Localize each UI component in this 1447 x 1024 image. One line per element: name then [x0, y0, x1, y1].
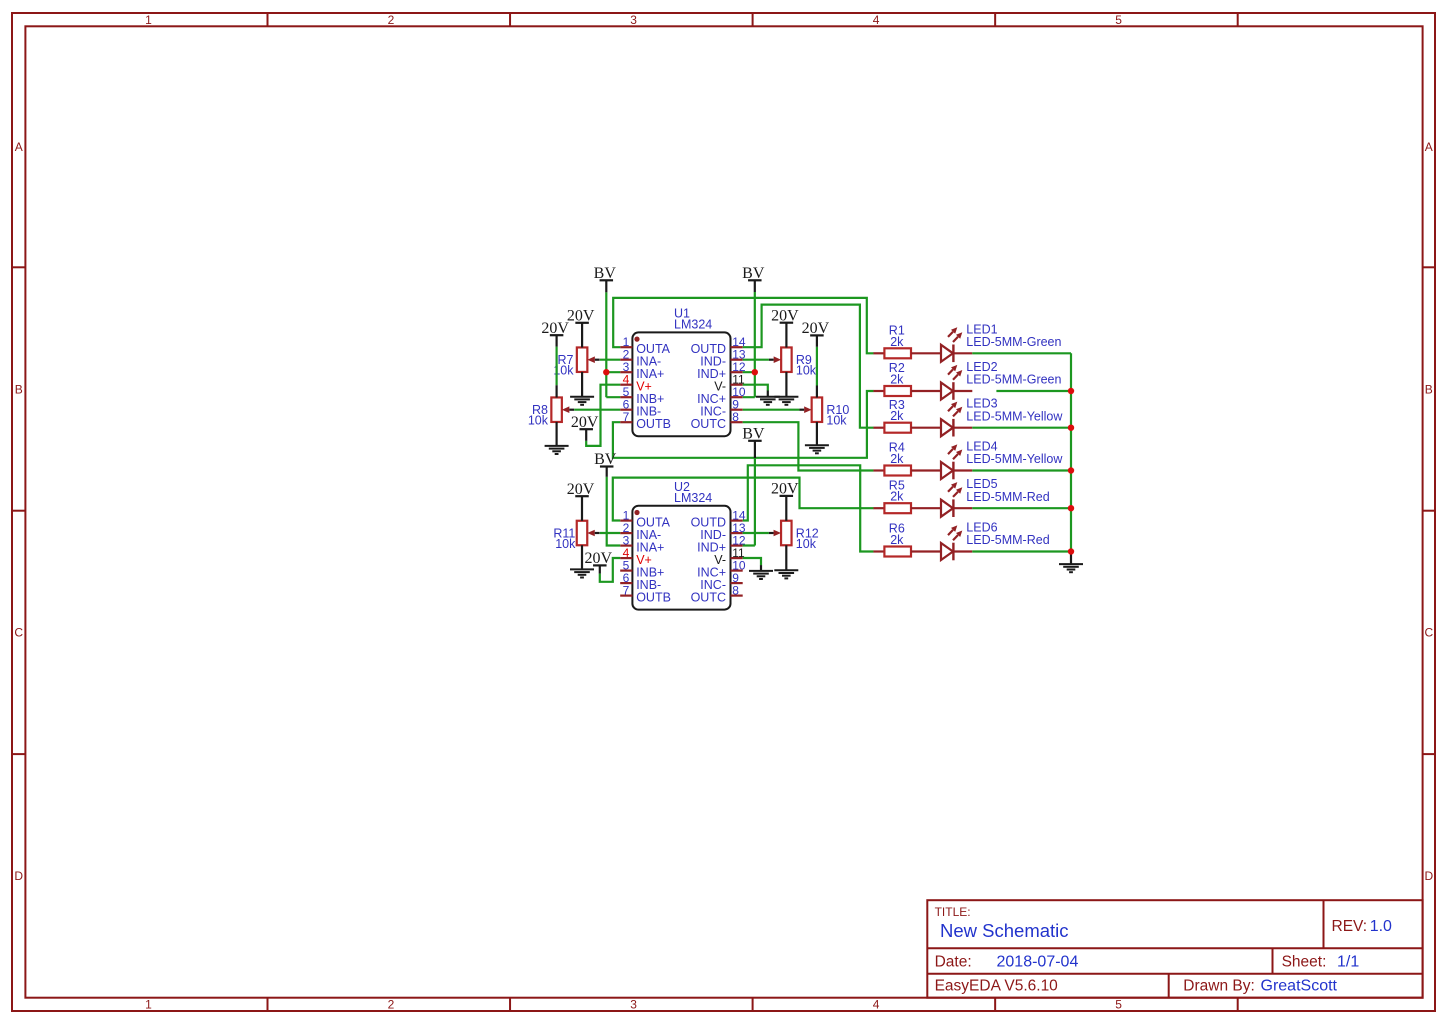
svg-text:TITLE:: TITLE:	[935, 905, 971, 919]
wire U1.OUTB to R2	[613, 391, 874, 458]
wire 20V to R10 top	[816, 347, 818, 386]
wire U1.OUTA to R1	[613, 298, 873, 353]
svg-text:8: 8	[732, 583, 739, 597]
wire BV flag stem (top left)	[605, 280, 607, 292]
U1 pin stubs	[620, 347, 743, 422]
svg-text:2k: 2k	[890, 452, 904, 466]
LED1	[941, 327, 972, 362]
resistor R1 2k	[873, 348, 941, 358]
svg-text:4: 4	[873, 998, 880, 1012]
LED2	[941, 365, 972, 400]
U1 pin numbers	[623, 335, 746, 424]
svg-text:OUTC: OUTC	[691, 417, 726, 431]
potentiometer R12 10k	[769, 521, 792, 546]
wire R12 bottom to ground	[785, 545, 787, 570]
potentiometer R10 10k	[799, 397, 822, 422]
power flag 20V	[567, 481, 595, 498]
power flag BV	[594, 265, 617, 282]
svg-text:10k: 10k	[796, 364, 817, 378]
resistor R5 2k	[873, 503, 941, 513]
wire R8 bottom to ground	[555, 422, 557, 446]
svg-text:B: B	[15, 382, 23, 396]
wire 20V stem to R11 top	[581, 496, 583, 521]
wire U1.V+ to 20V	[586, 385, 620, 446]
svg-text:LED-5MM-Yellow: LED-5MM-Yellow	[966, 409, 1063, 423]
junction LED2 bus	[1068, 388, 1074, 394]
svg-text:A: A	[1425, 140, 1433, 154]
junction LED4 bus	[1068, 467, 1074, 473]
U2 pin names	[636, 515, 726, 604]
potentiometer R7 10k	[577, 347, 600, 372]
svg-text:7: 7	[623, 410, 630, 424]
power flag 20V	[571, 414, 599, 431]
junction LED6 bus/ground	[1068, 548, 1074, 554]
wire U1.OUTC to R4	[743, 422, 874, 470]
svg-text:2: 2	[388, 998, 395, 1012]
svg-text:2k: 2k	[890, 335, 904, 349]
U2 pin numbers	[623, 508, 746, 597]
wire 20V stem (R10)	[816, 335, 818, 346]
power flag BV	[742, 426, 765, 443]
svg-text:2018-07-04: 2018-07-04	[997, 953, 1079, 970]
svg-text:5: 5	[1115, 13, 1122, 27]
resistor R4 2k	[873, 466, 941, 476]
ground (R9 ground)	[774, 397, 798, 405]
svg-text:2k: 2k	[890, 490, 904, 504]
power flag 20V	[541, 320, 569, 337]
wire LED5 cathode to ground bus	[972, 507, 1071, 509]
wire U1 V- ground stem	[767, 391, 769, 397]
svg-text:BV: BV	[742, 265, 765, 282]
wire LED3 cathode to ground bus	[972, 427, 1071, 429]
svg-text:20V: 20V	[541, 320, 569, 337]
potentiometer R9 10k	[769, 347, 792, 372]
svg-text:1: 1	[145, 998, 152, 1012]
wire net BV to U1.INA+ / U1.INB+	[606, 292, 620, 397]
ground (R11 ground)	[570, 569, 594, 577]
junction U1.INA+/BV	[603, 369, 609, 375]
svg-text:3: 3	[630, 998, 637, 1012]
svg-text:20V: 20V	[571, 414, 599, 431]
wire R10 top lead	[816, 386, 818, 398]
svg-text:Drawn By:: Drawn By:	[1183, 978, 1255, 995]
wire BV flag stem (top right)	[754, 280, 756, 292]
U1 pin names	[636, 342, 726, 431]
junction U1.IND+/BV	[752, 369, 758, 375]
svg-text:OUTB: OUTB	[636, 590, 671, 604]
svg-text:3: 3	[630, 13, 637, 27]
wire U1.V- to ground	[743, 385, 768, 391]
svg-text:2: 2	[388, 13, 395, 27]
svg-text:A: A	[15, 140, 23, 154]
op-amp U2 body	[632, 506, 730, 610]
wire U1.INC- to R10 wiper	[743, 409, 800, 411]
wire net BV to U2.IND+	[743, 458, 755, 546]
svg-text:BV: BV	[594, 265, 617, 282]
svg-text:REV:: REV:	[1332, 918, 1368, 935]
potentiometer R8 10k	[551, 397, 574, 422]
svg-text:1: 1	[145, 13, 152, 27]
wire LED2 cathode to ground bus	[996, 390, 1071, 392]
potentiometer R11 10k	[577, 521, 600, 546]
svg-text:20V: 20V	[802, 320, 830, 337]
svg-text:LM324: LM324	[674, 491, 712, 505]
wire U1.OUTD to R3	[743, 305, 874, 428]
ground (LED bus ground)	[1059, 564, 1083, 572]
svg-text:LED-5MM-Yellow: LED-5MM-Yellow	[966, 452, 1063, 466]
wire LED bus ground stem	[1070, 552, 1072, 565]
svg-text:2k: 2k	[890, 533, 904, 547]
svg-text:1/1: 1/1	[1337, 953, 1359, 970]
wire R7 bottom to ground	[581, 372, 583, 397]
svg-text:7: 7	[623, 583, 630, 597]
wire U2.OUTA to R5	[613, 478, 874, 521]
svg-text:1.0: 1.0	[1370, 918, 1392, 935]
svg-text:GreatScott: GreatScott	[1261, 978, 1338, 995]
ground (U2 V- ground)	[749, 571, 773, 579]
LED3	[941, 402, 972, 437]
svg-text:EasyEDA V5.6.10: EasyEDA V5.6.10	[935, 978, 1059, 995]
ground (R10 ground)	[805, 445, 829, 453]
svg-text:BV: BV	[594, 451, 617, 468]
wire net BV to U2.INA+	[607, 477, 621, 546]
svg-text:20V: 20V	[567, 308, 595, 325]
power flag 20V	[802, 320, 830, 337]
wire LED6 cathode to ground bus	[972, 550, 1071, 552]
svg-text:LED-5MM-Green: LED-5MM-Green	[966, 335, 1061, 349]
svg-text:OUTC: OUTC	[691, 590, 726, 604]
wire R8 wiper to U1.INB-	[574, 409, 620, 411]
wire R7 wiper to U1.INA-	[600, 359, 620, 361]
svg-text:20V: 20V	[771, 481, 799, 498]
wire U1.IND- to R9 wiper	[743, 359, 769, 361]
wire 20V stem (U2 V+)	[599, 565, 601, 573]
power flag BV	[594, 451, 617, 468]
U2 pin stubs	[620, 521, 743, 596]
svg-text:2k: 2k	[890, 409, 904, 423]
power flag 20V	[567, 308, 595, 325]
ground (R7 ground)	[570, 397, 594, 405]
svg-text:10k: 10k	[555, 537, 576, 551]
wire U2.V+ to 20V	[600, 558, 620, 582]
wire U2.IND- to R12 wiper	[743, 532, 769, 534]
wire R10 bottom to ground	[816, 422, 818, 445]
svg-text:B: B	[1425, 382, 1433, 396]
wire U2.V- to ground	[743, 558, 761, 565]
svg-text:5: 5	[1115, 998, 1122, 1012]
svg-text:D: D	[14, 869, 23, 883]
wire U2 V- ground stem	[760, 565, 762, 571]
svg-text:Sheet:: Sheet:	[1282, 953, 1327, 970]
resistor R6 2k	[873, 547, 941, 557]
junction LED3 bus	[1068, 425, 1074, 431]
wire R8 top lead	[555, 385, 557, 397]
power flag 20V	[771, 481, 799, 498]
svg-text:10k: 10k	[826, 414, 847, 428]
power flag 20V	[771, 307, 799, 324]
wire 20V stem to R12 top	[785, 496, 787, 521]
wire 20V stem to R7 top	[581, 323, 583, 348]
wire R11 wiper to U2.INA-	[600, 532, 620, 534]
ground (U1 V- ground)	[756, 397, 780, 405]
wire ground bus vertical	[1070, 353, 1072, 551]
wire U2.OUTD to R6	[743, 465, 874, 551]
svg-text:OUTB: OUTB	[636, 417, 671, 431]
svg-text:20V: 20V	[585, 550, 613, 567]
svg-text:LM324: LM324	[674, 318, 712, 332]
LED5	[941, 482, 972, 517]
svg-text:C: C	[14, 626, 23, 640]
svg-text:D: D	[1424, 869, 1433, 883]
wire LED1 cathode to ground bus	[972, 352, 1071, 354]
wire 20V to R8 top	[555, 347, 557, 386]
svg-text:8: 8	[732, 410, 739, 424]
svg-text:BV: BV	[742, 426, 765, 443]
LED6	[941, 525, 972, 560]
svg-text:20V: 20V	[567, 481, 595, 498]
svg-text:2k: 2k	[890, 373, 904, 387]
power flag 20V	[585, 550, 613, 567]
wire 20V stem (U1 V+)	[585, 429, 587, 441]
svg-text:4: 4	[873, 13, 880, 27]
svg-text:10k: 10k	[796, 537, 817, 551]
wire R9 bottom to ground	[785, 372, 787, 397]
wire LED4 cathode to ground bus	[972, 469, 1071, 471]
svg-text:LED-5MM-Red: LED-5MM-Red	[966, 490, 1049, 504]
wire BV flag stem (above U2)	[606, 467, 608, 477]
ground (R12 ground)	[774, 570, 798, 578]
power flag BV	[742, 265, 765, 282]
svg-text:10k: 10k	[528, 414, 549, 428]
wire net BV to U1.IND+ / U1.INC+	[743, 292, 755, 397]
wire R11 bottom to ground	[581, 545, 583, 569]
svg-text:Date:: Date:	[935, 953, 972, 970]
wire BV flag stem (right of U2)	[754, 441, 756, 458]
LED4	[941, 444, 972, 479]
ground (R8 ground)	[545, 446, 569, 454]
wire 20V stem to R9 top	[785, 323, 787, 348]
resistor R2 2k	[873, 386, 941, 396]
junction LED5 bus	[1068, 505, 1074, 511]
op-amp U1 body	[632, 332, 730, 436]
svg-text:C: C	[1424, 626, 1433, 640]
svg-text:New Schematic: New Schematic	[940, 920, 1069, 941]
svg-text:LED-5MM-Green: LED-5MM-Green	[966, 373, 1061, 387]
svg-text:LED-5MM-Red: LED-5MM-Red	[966, 533, 1049, 547]
svg-text:20V: 20V	[771, 307, 799, 324]
wire 20V stem (R8)	[555, 335, 557, 346]
resistor R3 2k	[873, 423, 941, 433]
